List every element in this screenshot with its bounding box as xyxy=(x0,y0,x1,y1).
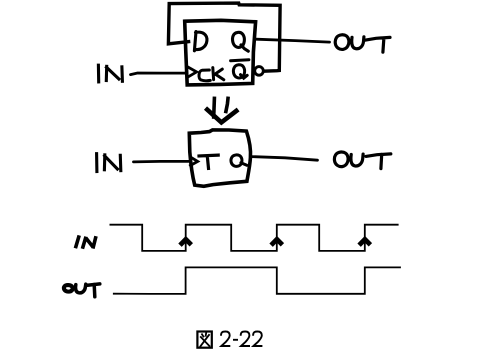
pin label D xyxy=(194,32,207,51)
wire IN to T xyxy=(134,160,190,163)
clock edge triangle on T pin xyxy=(189,156,198,166)
pin label CK xyxy=(199,68,224,81)
D flip-flop box U1 xyxy=(185,20,256,85)
wire IN to CK xyxy=(131,73,187,75)
pin label Q (T box) xyxy=(231,155,247,167)
waveform label OUT xyxy=(64,285,73,292)
IN waveform trace xyxy=(110,225,399,251)
caption kanji ZU (figure) xyxy=(197,332,211,348)
pin label Qbar (Q with overbar) xyxy=(231,60,249,78)
wire: feedback loop from /Q output around top to D input xyxy=(168,3,280,71)
T flip-flop box U2 xyxy=(189,130,250,186)
waveform label IN xyxy=(75,235,96,248)
rising edge arrow 2 xyxy=(271,239,282,245)
rising edge arrow 3 xyxy=(359,239,370,245)
caption number 2-22 xyxy=(221,332,262,347)
OUT waveform trace xyxy=(113,267,401,294)
label IN (middle) xyxy=(97,154,121,172)
pin label Q xyxy=(233,32,249,51)
pin label T xyxy=(199,155,218,168)
rising edge arrow 1 xyxy=(180,239,191,245)
clock edge triangle on CK pin xyxy=(187,67,197,78)
wire Q to OUT xyxy=(256,39,330,42)
wire Q to OUT (middle) xyxy=(252,157,318,161)
double down arrow between symbols xyxy=(212,98,216,117)
inverting bubble on Qbar output xyxy=(255,67,264,76)
label OUT (top) xyxy=(335,35,390,52)
label OUT (middle) xyxy=(334,152,390,169)
label IN (top) xyxy=(98,65,122,82)
